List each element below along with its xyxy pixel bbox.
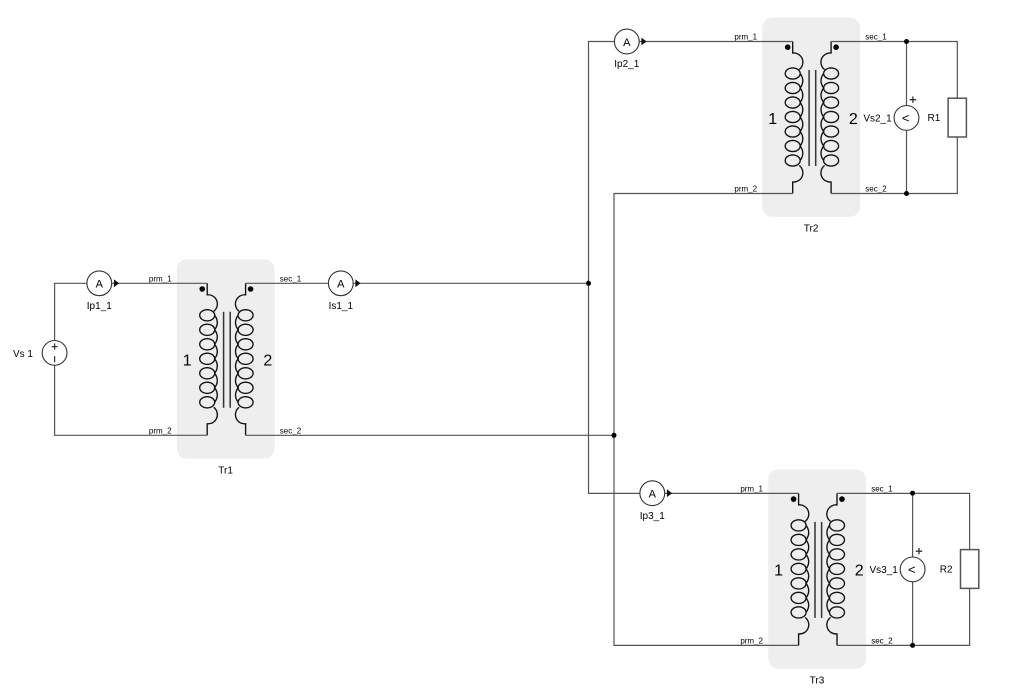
svg-text:Tr1: Tr1	[218, 465, 233, 476]
svg-text:1: 1	[183, 353, 192, 370]
ammeter Is1_1	[328, 271, 360, 296]
wire from Tr1 sec_2 to node B	[246, 434, 614, 436]
svg-text:sec_1: sec_1	[865, 33, 887, 42]
svg-text:<: <	[908, 562, 916, 577]
voltage source Vs1	[42, 341, 67, 366]
ammeter Ip3_1	[640, 481, 672, 506]
svg-text:Ip2_1: Ip2_1	[614, 59, 639, 70]
wire from Ip2_1 to Tr2 prm_1	[639, 41, 793, 43]
wire from Vs1 + terminal up and right to ammeter Ip1_1	[55, 283, 87, 340]
wire from Ip3_1 to Tr3 prm_1	[665, 492, 799, 494]
svg-text:prm_2: prm_2	[740, 636, 763, 645]
svg-text:1: 1	[768, 111, 777, 128]
wire from Vs3_1 down to node F	[912, 582, 914, 646]
svg-text:A: A	[96, 279, 104, 291]
wire from node A up then right to ammeter Ip2_1	[589, 42, 615, 284]
svg-text:Is1_1: Is1_1	[329, 301, 354, 312]
wire from Vs2_1 down to node D	[906, 130, 908, 193]
svg-text:prm_1: prm_1	[734, 33, 757, 42]
voltmeter Vs3_1	[900, 548, 925, 582]
wire from Ip1_1 to Tr1 prm_1	[112, 282, 208, 284]
wire from Tr3 sec_2 right then up to resistor R2	[837, 588, 970, 645]
svg-text:Ip3_1: Ip3_1	[640, 511, 665, 522]
svg-text:A: A	[623, 37, 631, 49]
transformer Tr3	[768, 470, 866, 669]
junction node B	[612, 433, 617, 438]
svg-text:A: A	[337, 279, 345, 291]
svg-text:prm_1: prm_1	[740, 484, 763, 493]
svg-text:<: <	[902, 110, 910, 125]
svg-text:R2: R2	[940, 564, 953, 575]
junction node C	[904, 39, 909, 44]
wire from Tr2 sec_1 right then down to resistor R1	[831, 42, 957, 99]
ammeter Ip1_1	[87, 271, 119, 296]
svg-text:sec_2: sec_2	[865, 185, 887, 194]
svg-text:sec_1: sec_1	[280, 274, 302, 283]
junction node D	[904, 191, 909, 196]
svg-text:prm_2: prm_2	[149, 426, 172, 435]
ammeter Ip2_1	[614, 29, 646, 54]
svg-text:2: 2	[855, 563, 864, 580]
junction node F	[910, 643, 915, 648]
svg-text:A: A	[649, 489, 657, 501]
junction node A	[586, 281, 591, 286]
svg-text:prm_1: prm_1	[149, 274, 172, 283]
svg-text:1: 1	[774, 563, 783, 580]
wire from node E down to voltmeter Vs3_1	[912, 493, 914, 557]
svg-text:sec_2: sec_2	[871, 636, 893, 645]
resistor R1	[948, 98, 966, 137]
wire from node A down then right to ammeter Ip3_1	[589, 283, 640, 493]
svg-text:2: 2	[849, 111, 858, 128]
svg-text:Vs 1: Vs 1	[13, 349, 33, 360]
wire from node C down to voltmeter Vs2_1	[906, 42, 908, 106]
svg-text:Tr3: Tr3	[810, 675, 825, 686]
svg-text:sec_1: sec_1	[871, 484, 893, 493]
transformer Tr1	[177, 259, 275, 458]
transformer Tr2	[762, 18, 860, 217]
svg-text:sec_2: sec_2	[280, 426, 302, 435]
junction node E	[910, 491, 915, 496]
voltmeter Vs2_1	[894, 97, 919, 131]
svg-text:R1: R1	[928, 113, 941, 124]
wire from Tr3 sec_1 right then down to resistor R2	[837, 493, 970, 549]
wire from node B down then right to Tr3 prm_2	[614, 435, 799, 645]
wire from Is1_1 to node A	[353, 282, 588, 284]
svg-text:Vs2_1: Vs2_1	[863, 113, 892, 124]
wire from node B up then right to Tr2 prm_2	[614, 194, 793, 436]
svg-text:Vs3_1: Vs3_1	[869, 565, 898, 576]
svg-text:Tr2: Tr2	[804, 224, 819, 235]
wire from Tr1 sec_1 to ammeter Is1_1	[246, 282, 329, 284]
wire from Vs1 - terminal down and right to Tr1 prm_2	[55, 365, 208, 435]
wire from Tr2 sec_2 right then up to resistor R1	[831, 137, 957, 194]
svg-text:prm_2: prm_2	[734, 185, 757, 194]
svg-text:Ip1_1: Ip1_1	[87, 301, 112, 312]
svg-text:2: 2	[263, 353, 272, 370]
resistor R2	[961, 550, 979, 589]
